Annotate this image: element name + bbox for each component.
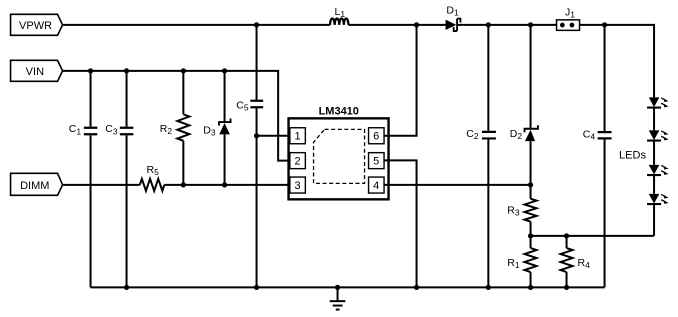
- junction rail/pin5: [414, 285, 419, 290]
- wire pin 6 to VPWR riser: [384, 25, 417, 136]
- LED 4: [647, 194, 669, 204]
- wire LED2-LED3: [653, 141, 655, 165]
- junction VPWR/C4: [602, 22, 607, 27]
- zener diode D2: [510, 25, 538, 199]
- wire C5 junction to pin 1: [257, 135, 290, 137]
- svg-text:5: 5: [373, 156, 379, 168]
- inductor L1: [330, 6, 348, 25]
- svg-text:R2: R2: [160, 123, 173, 136]
- junction VIN/C3: [124, 68, 129, 73]
- svg-text:DIMM: DIMM: [20, 180, 49, 192]
- net flag VPWR: [11, 14, 63, 35]
- wire VPWR to L1: [63, 24, 331, 26]
- svg-text:1: 1: [294, 131, 300, 143]
- svg-text:L1: L1: [335, 6, 346, 19]
- capacitor C1: [69, 71, 98, 288]
- wire pin 4 to R3 top: [384, 184, 531, 186]
- wire feedback node to LED string bottom: [531, 235, 655, 237]
- junction VPWR/D2: [528, 22, 533, 27]
- wire LED3-LED4: [653, 176, 655, 194]
- svg-text:LM3410: LM3410: [319, 105, 359, 117]
- pin 5: [369, 153, 385, 169]
- junction rail/R1: [528, 285, 533, 290]
- junction rail/C2: [486, 285, 491, 290]
- wire J1 to top-right corner, down to LED string: [579, 25, 655, 98]
- svg-text:D3: D3: [203, 124, 216, 137]
- zener diode D3: [203, 71, 230, 185]
- wire R3 to R1: [530, 222, 532, 249]
- capacitor C2: [466, 25, 496, 288]
- ground rail: [91, 286, 605, 288]
- svg-text:C2: C2: [466, 128, 479, 141]
- connector J1: [557, 6, 580, 30]
- svg-text:C3: C3: [105, 123, 118, 136]
- svg-text:D2: D2: [510, 128, 523, 141]
- junction VPWR/pin6 riser: [414, 22, 419, 27]
- pin 6: [369, 128, 385, 144]
- svg-text:2: 2: [294, 156, 300, 168]
- junction rail/C5: [254, 285, 259, 290]
- junction D2/pin4/R3: [528, 182, 533, 187]
- wire R5 to pin 3: [164, 184, 289, 186]
- junction VPWR/C2: [486, 22, 491, 27]
- LED 1: [647, 97, 669, 107]
- svg-text:VPWR: VPWR: [19, 20, 52, 32]
- svg-text:C1: C1: [69, 123, 82, 136]
- svg-text:LEDs: LEDs: [619, 149, 646, 161]
- svg-text:D1: D1: [446, 4, 459, 17]
- junction rail/ground: [335, 285, 340, 290]
- net flag VIN: [11, 60, 63, 81]
- wire D1 to J1: [458, 24, 558, 26]
- resistor R4: [561, 236, 591, 288]
- junction C5/pin1: [254, 133, 259, 138]
- svg-text:4: 4: [373, 180, 379, 192]
- svg-text:C5: C5: [236, 99, 249, 112]
- capacitor C5: [236, 25, 263, 288]
- junction DIMM/R2: [181, 182, 186, 187]
- wire VIN to pin 2: [63, 71, 290, 161]
- junction VIN/D3: [222, 68, 227, 73]
- diode D1 (Schottky): [446, 4, 461, 31]
- junction VPWR/C5: [254, 22, 259, 27]
- svg-text:6: 6: [373, 131, 379, 143]
- wire L1 to D1: [348, 24, 445, 26]
- pin 1: [290, 128, 306, 144]
- junction DIMM/D3: [222, 182, 227, 187]
- svg-text:R4: R4: [578, 257, 591, 270]
- resistor R2: [160, 71, 190, 185]
- LED 2: [647, 130, 669, 140]
- svg-text:R1: R1: [507, 257, 520, 270]
- svg-text:R5: R5: [147, 164, 160, 177]
- wire LED1-LED2: [653, 108, 655, 130]
- svg-text:J1: J1: [565, 6, 575, 19]
- junction rail/R4: [564, 285, 569, 290]
- svg-text:VIN: VIN: [26, 66, 44, 78]
- resistor R1: [507, 248, 536, 287]
- pin 2: [290, 153, 306, 169]
- wire pin 5 to ground riser: [384, 160, 417, 287]
- junction VIN/C1: [88, 68, 93, 73]
- LED 3: [647, 165, 669, 175]
- junction rail/C3: [124, 285, 129, 290]
- pin 4: [369, 177, 385, 193]
- junction R4 top: [564, 233, 569, 238]
- ground symbol: [330, 287, 346, 309]
- wire DIMM to R5: [63, 184, 140, 186]
- pin 3: [290, 177, 306, 193]
- resistor R3: [507, 199, 536, 222]
- junction R3/R1/R4: [528, 233, 533, 238]
- junction VIN/R2: [181, 68, 186, 73]
- resistor R5: [140, 164, 165, 191]
- svg-text:R3: R3: [507, 204, 520, 217]
- net flag DIMM: [11, 173, 63, 195]
- capacitor C3: [105, 71, 133, 288]
- svg-text:C4: C4: [583, 128, 596, 141]
- IC U1 LM3410: [289, 105, 389, 199]
- wire LED4 to feedback node: [653, 205, 655, 236]
- capacitor C4: [583, 25, 612, 288]
- svg-text:3: 3: [294, 180, 300, 192]
